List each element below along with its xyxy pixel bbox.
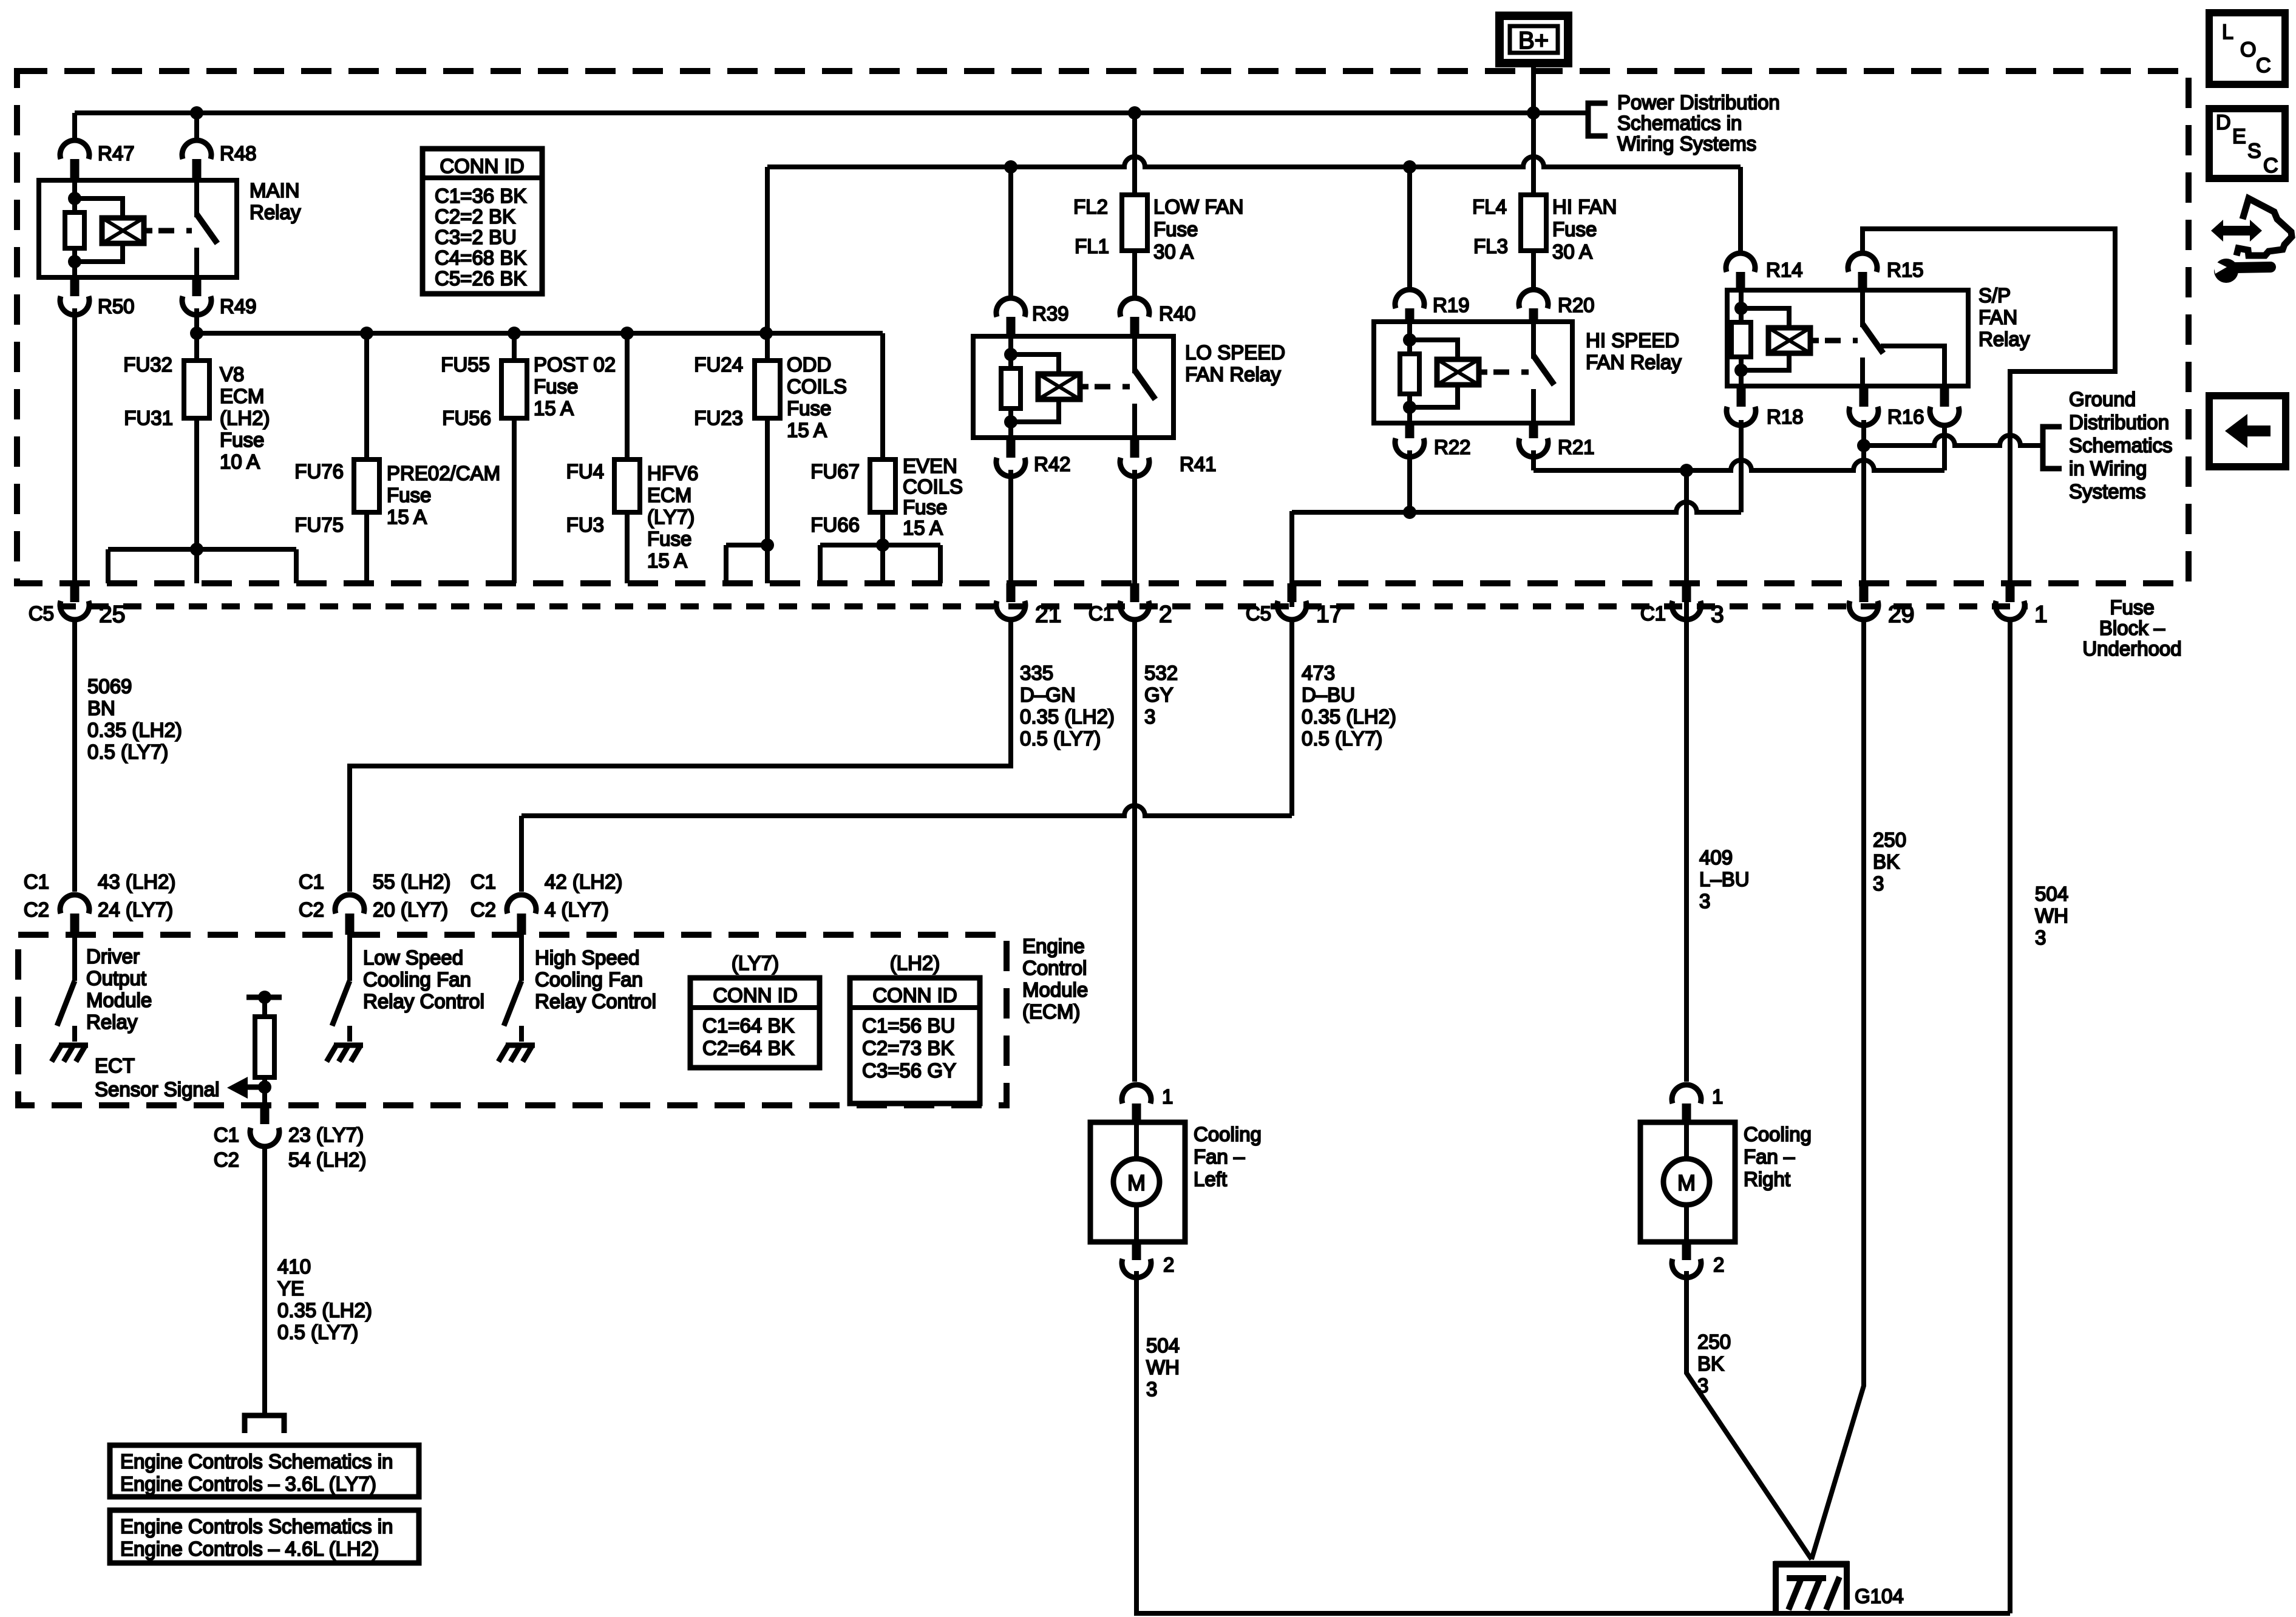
svg-text:250: 250 <box>1873 829 1906 851</box>
svg-text:15 A: 15 A <box>534 397 574 419</box>
svg-text:1: 1 <box>2034 602 2048 628</box>
line C to Ground Distribution pointer with hops <box>1864 435 2042 446</box>
relay MAIN switch common wire <box>194 180 199 217</box>
svg-text:L: L <box>2222 21 2233 44</box>
svg-text:M: M <box>1677 1170 1696 1195</box>
svg-text:LO SPEED: LO SPEED <box>1185 341 1285 364</box>
svg-text:Distribution: Distribution <box>2069 411 2169 433</box>
svg-text:Fuse: Fuse <box>2110 596 2154 619</box>
svg-text:D–GN: D–GN <box>1020 683 1076 706</box>
svg-text:Wiring Systems: Wiring Systems <box>1617 132 1756 155</box>
ECT sensor signal arrow <box>246 1085 265 1090</box>
svg-text:R48: R48 <box>220 142 257 164</box>
svg-text:Right: Right <box>1744 1168 1790 1190</box>
relay MAIN dashed actuation link <box>158 228 192 234</box>
svg-text:in Wiring: in Wiring <box>2069 457 2147 480</box>
svg-text:3: 3 <box>1699 890 1710 912</box>
svg-text:Fuse: Fuse <box>1153 218 1198 240</box>
svg-text:Schematics: Schematics <box>2069 434 2173 456</box>
relay LO SPEED FAN switch blade <box>1135 370 1155 399</box>
svg-text:LOW FAN: LOW FAN <box>1153 195 1244 218</box>
connector 29 <box>1849 601 1878 620</box>
node LO SPEED FAN coil bottom junction <box>1004 415 1017 429</box>
connector Cooling Fan Left pin 1 <box>1122 1085 1151 1103</box>
connector R40 <box>1120 298 1149 317</box>
wire bus2 corner down to R14 <box>1738 167 1743 253</box>
connector Driver Output Module Relay <box>60 895 89 914</box>
svg-text:FU32: FU32 <box>123 353 172 376</box>
relay S/P FAN coil wire <box>1739 290 1744 322</box>
pin stub 1 <box>2006 583 2015 602</box>
svg-text:FL3: FL3 <box>1473 235 1508 257</box>
wire Low Speed Cooling Fan Relay Control to switch <box>347 935 352 981</box>
svg-text:V8: V8 <box>220 363 244 385</box>
svg-text:FL4: FL4 <box>1472 195 1507 218</box>
wire bus3 to fuse FU55 <box>512 333 517 361</box>
svg-text:S/P: S/P <box>1978 284 2011 307</box>
svg-text:R15: R15 <box>1887 259 1924 281</box>
pin stub R49 <box>192 277 202 296</box>
svg-text:Module: Module <box>1022 978 1088 1001</box>
node MAIN coil bottom junction <box>68 255 81 268</box>
relay S/P FAN switch common wire <box>1860 290 1865 327</box>
relay HI SPEED FAN coil resistor <box>1400 354 1419 394</box>
pin stub R47 <box>70 159 80 180</box>
svg-text:Sensor Signal: Sensor Signal <box>95 1078 219 1100</box>
svg-text:(LH2): (LH2) <box>220 407 270 429</box>
DESC reference box <box>2209 109 2285 178</box>
connector High Speed Cooling Fan Relay Control <box>507 895 536 914</box>
FU23 output jog wire <box>726 543 767 547</box>
svg-text:C2=2 BK: C2=2 BK <box>435 205 515 228</box>
svg-text:Fan –: Fan – <box>1194 1145 1245 1168</box>
wire 409 L-BU to Cooling Fan Right <box>1684 470 1689 1082</box>
svg-text:ECM: ECM <box>647 484 691 506</box>
svg-text:(LY7): (LY7) <box>647 506 695 528</box>
fuse FU4/FU3 HFV6 ECM <box>614 459 640 512</box>
svg-text:R42: R42 <box>1034 453 1071 475</box>
relay MAIN switch contact stub <box>194 248 199 277</box>
svg-text:Engine: Engine <box>1022 935 1085 957</box>
wire High Speed Cooling Fan Relay Control to switch <box>519 935 524 981</box>
relay HI SPEED FAN winding (coil box with X) <box>1437 359 1479 385</box>
ground (Driver Output Module Relay) <box>59 1043 88 1048</box>
svg-text:2: 2 <box>1163 1253 1174 1276</box>
wire line B C5-17 to R18 with hop over 409 wire <box>1289 511 1294 607</box>
svg-text:2: 2 <box>1159 602 1172 628</box>
relay LO SPEED FAN dashed actuation link <box>1095 384 1130 390</box>
relay LO SPEED FAN winding (coil box with X) <box>1038 374 1080 399</box>
svg-text:Fan –: Fan – <box>1744 1145 1795 1168</box>
bus3 fuse feed wire <box>197 331 883 336</box>
back arrow reference box <box>2209 396 2286 467</box>
svg-text:23 (LY7): 23 (LY7) <box>288 1124 364 1146</box>
connector Cooling Fan Right pin 2 <box>1672 1259 1701 1278</box>
relay LO SPEED FAN coil resistor <box>1001 368 1021 408</box>
svg-text:R19: R19 <box>1433 294 1470 316</box>
CONN ID table (LY7) <box>690 978 820 1068</box>
connector R16 left <box>1849 407 1878 425</box>
svg-text:C1=56 BU: C1=56 BU <box>862 1014 955 1037</box>
svg-text:COILS: COILS <box>903 475 963 498</box>
svg-text:Fuse: Fuse <box>647 527 691 550</box>
svg-text:WH: WH <box>1146 1356 1180 1378</box>
svg-text:R16: R16 <box>1887 405 1924 428</box>
svg-text:1: 1 <box>1712 1085 1723 1108</box>
svg-text:Cooling: Cooling <box>1744 1123 1812 1145</box>
svg-text:EVEN: EVEN <box>903 455 957 477</box>
svg-text:Relay: Relay <box>1978 328 2030 350</box>
svg-text:R20: R20 <box>1558 294 1595 316</box>
svg-text:FAN Relay: FAN Relay <box>1185 363 1281 385</box>
node line A / 409 wire <box>1680 464 1693 477</box>
pin stub High Speed Cooling Fan Relay Control <box>517 914 526 935</box>
svg-text:Control: Control <box>1022 957 1087 979</box>
relay HI SPEED FAN winding loop wires <box>1410 340 1458 359</box>
fuse FU32/FU31 V8 ECM <box>184 361 209 418</box>
fuse FU67/FU66 EVEN COILS <box>870 459 895 512</box>
relay MAIN winding (coil box with X) <box>102 218 144 243</box>
connector C1-2 <box>1120 601 1149 620</box>
connector R50 <box>60 296 89 315</box>
svg-text:C1: C1 <box>214 1124 239 1146</box>
svg-text:C2: C2 <box>24 898 49 921</box>
wire bus1 down to R47 <box>72 113 77 140</box>
svg-text:R22: R22 <box>1434 436 1471 458</box>
svg-text:3: 3 <box>1697 1374 1708 1397</box>
wire FU75 to fuse block edge <box>364 512 369 583</box>
svg-text:C1=36 BK: C1=36 BK <box>435 185 526 207</box>
svg-text:BK: BK <box>1873 850 1900 873</box>
jog leg wires to fuse block edge <box>818 545 823 583</box>
switch stub High Speed Cooling Fan Relay Control <box>519 1026 524 1042</box>
svg-text:FU24: FU24 <box>694 353 743 376</box>
svg-text:D–BU: D–BU <box>1302 683 1355 706</box>
node line C <box>1857 439 1870 452</box>
svg-text:335: 335 <box>1020 662 1053 684</box>
connector R20 <box>1519 290 1548 308</box>
svg-text:5069: 5069 <box>87 675 132 697</box>
fuse FU76/FU75 PRE02/CAM <box>354 459 379 512</box>
svg-text:WH: WH <box>2035 904 2068 927</box>
svg-text:Relay Control: Relay Control <box>363 990 484 1012</box>
wire B+ to bus <box>1531 63 1536 113</box>
wire R22 down to 473 node <box>1407 450 1412 512</box>
fuse block underhood dashed boundary <box>17 71 2189 583</box>
pin stub R16 left <box>1860 386 1869 407</box>
wire Cooling Fan Right return 250 BK to G104 <box>1686 1271 1812 1559</box>
wire FU66 to output jog <box>880 512 885 545</box>
svg-text:Fuse: Fuse <box>534 375 578 398</box>
svg-text:C5: C5 <box>29 602 54 625</box>
node ECT signal <box>258 1080 271 1094</box>
svg-text:MAIN: MAIN <box>250 179 300 202</box>
svg-text:15 A: 15 A <box>903 517 943 539</box>
svg-text:(LH2): (LH2) <box>890 952 940 974</box>
svg-text:High Speed: High Speed <box>535 946 639 969</box>
connector R41 <box>1120 458 1149 476</box>
svg-text:0.35 (LH2): 0.35 (LH2) <box>87 719 182 741</box>
svg-text:4 (LY7): 4 (LY7) <box>545 898 609 921</box>
motor Cooling Fan Right box <box>1640 1122 1735 1242</box>
svg-text:C1: C1 <box>1089 602 1114 625</box>
Engine Control Module dashed boundary <box>18 935 1007 1105</box>
svg-text:0.5 (LY7): 0.5 (LY7) <box>277 1321 358 1343</box>
connector R47 <box>60 140 89 159</box>
svg-text:504: 504 <box>1146 1334 1180 1357</box>
svg-text:0.35 (LH2): 0.35 (LH2) <box>1302 705 1396 728</box>
wire 250 BK from connector 29 to G104 <box>1812 622 1864 1559</box>
svg-text:15 A: 15 A <box>787 419 827 441</box>
wire 532 GY to Cooling Fan Left <box>1132 622 1137 1082</box>
wire FL1 to R40 <box>1132 251 1137 297</box>
connector R21 <box>1519 438 1548 457</box>
wire R50 to fuse block connector C5-25 <box>72 308 77 583</box>
connector R19 <box>1395 290 1424 308</box>
svg-text:FL2: FL2 <box>1073 195 1108 218</box>
pin stub R22 <box>1405 423 1415 438</box>
pin stub C5-25 <box>70 583 80 602</box>
wire R16 left down to ground line C <box>1861 420 1866 583</box>
svg-text:CONN ID: CONN ID <box>872 984 957 1006</box>
wire B+ junction to Power Distribution pointer <box>1533 110 1588 115</box>
svg-text:Relay Control: Relay Control <box>535 990 656 1012</box>
connector R49 <box>182 296 211 315</box>
svg-text:Output: Output <box>86 967 146 989</box>
svg-text:21: 21 <box>1035 602 1061 628</box>
svg-text:FU23: FU23 <box>694 407 743 429</box>
connector Cooling Fan Right pin 1 <box>1672 1085 1701 1103</box>
svg-text:20 (LY7): 20 (LY7) <box>373 898 448 921</box>
pin stub Cooling Fan Left 1 <box>1132 1103 1141 1122</box>
svg-text:Engine Controls – 4.6L (LH2): Engine Controls – 4.6L (LH2) <box>120 1537 379 1560</box>
wire 473 D-BU to High Speed control (hop over 532) <box>521 805 1292 816</box>
node bus1/FL2 <box>1128 106 1141 120</box>
ECT sensor pull-up top bar <box>246 995 282 1000</box>
relay S/P FAN switch contact stub <box>1860 358 1865 386</box>
relay HI SPEED FAN box <box>1374 322 1572 423</box>
node HI SPEED FAN coil top junction <box>1403 333 1416 347</box>
svg-text:25: 25 <box>99 602 125 628</box>
wire FU3 to fuse block edge <box>625 512 630 583</box>
off-page connector bracket (410 YE) <box>245 1415 284 1433</box>
svg-text:409: 409 <box>1699 846 1733 869</box>
svg-text:1: 1 <box>1162 1085 1173 1108</box>
svg-text:FU3: FU3 <box>566 514 604 536</box>
svg-text:30 A: 30 A <box>1153 240 1194 263</box>
svg-text:(LY7): (LY7) <box>732 952 779 974</box>
svg-text:M: M <box>1127 1170 1146 1195</box>
svg-text:C3=56 GY: C3=56 GY <box>862 1059 956 1082</box>
node 473/R22 <box>1403 506 1416 519</box>
svg-text:0.5 (LY7): 0.5 (LY7) <box>1302 727 1382 750</box>
pin stub C1-2 <box>1130 583 1140 602</box>
Ground Distribution reference bracket <box>2043 427 2062 469</box>
pin stub R42 <box>1007 438 1016 458</box>
motor Cooling Fan Left box <box>1090 1122 1185 1242</box>
svg-text:R39: R39 <box>1032 302 1069 325</box>
connector C1/C2 23/54 <box>250 1128 279 1147</box>
ground G104 symbol <box>1774 1561 1849 1568</box>
svg-text:15 A: 15 A <box>647 549 687 572</box>
connector C5-25 <box>60 601 89 620</box>
svg-text:FL1: FL1 <box>1075 235 1109 257</box>
svg-text:10 A: 10 A <box>220 450 260 473</box>
svg-text:C5=26 BK: C5=26 BK <box>435 267 526 290</box>
jog leg wires to fuse block edge <box>724 545 729 583</box>
fuse FU24/FU23 ODD COILS <box>755 361 780 418</box>
relay HI SPEED FAN switch contact stub <box>1531 389 1536 423</box>
svg-text:R14: R14 <box>1766 259 1803 281</box>
svg-text:3: 3 <box>2035 926 2046 949</box>
connector C1-3 <box>1672 601 1701 620</box>
svg-text:S: S <box>2247 140 2261 163</box>
pin stub Cooling Fan Left 2 <box>1132 1242 1141 1260</box>
svg-text:54 (LH2): 54 (LH2) <box>288 1148 366 1171</box>
svg-text:YE: YE <box>277 1277 304 1300</box>
node FU66 jog <box>876 538 889 552</box>
connector R18 <box>1727 407 1756 425</box>
connector R14 <box>1726 253 1755 272</box>
svg-text:Power Distribution: Power Distribution <box>1617 91 1780 114</box>
svg-text:C2: C2 <box>470 898 496 921</box>
node bus1/B+ <box>1527 106 1540 120</box>
node S/P FAN coil top junction <box>1734 302 1748 315</box>
svg-text:C1: C1 <box>470 870 496 893</box>
svg-text:C2=73 BK: C2=73 BK <box>862 1037 954 1059</box>
bus2 horizontal feed wire with hops <box>767 157 1741 167</box>
svg-text:Cooling: Cooling <box>1194 1123 1262 1145</box>
pin stub R50 <box>70 277 80 296</box>
connector R42 <box>996 458 1025 476</box>
wire resistor to ECT signal node <box>262 1077 267 1103</box>
svg-text:O: O <box>2240 38 2256 61</box>
S/P relay switch output wire to R16 right <box>1881 346 1944 386</box>
svg-text:Engine Controls Schematics in: Engine Controls Schematics in <box>120 1515 393 1537</box>
relay HI SPEED FAN dashed actuation link <box>1493 370 1529 375</box>
svg-text:ODD: ODD <box>787 353 831 376</box>
svg-text:COILS: COILS <box>787 375 847 398</box>
svg-text:30 A: 30 A <box>1552 240 1592 263</box>
svg-text:Ground: Ground <box>2069 388 2136 410</box>
svg-text:FU75: FU75 <box>294 514 344 536</box>
svg-text:Left: Left <box>1194 1168 1227 1190</box>
svg-text:3: 3 <box>1144 705 1155 728</box>
switch stub Driver Output Module Relay <box>72 1026 77 1042</box>
FU31 output jog wire <box>108 547 296 552</box>
svg-text:C5: C5 <box>1246 602 1271 625</box>
wire 410 YE to engine controls <box>262 1148 267 1414</box>
wire R18 down to line B <box>1739 420 1744 512</box>
wire 5069 BN to ECM driver relay <box>72 622 77 892</box>
svg-text:CONN ID: CONN ID <box>713 984 797 1006</box>
svg-text:C2=64 BK: C2=64 BK <box>702 1037 794 1059</box>
wire 335 D-GN circuit 21 to Low Speed control <box>350 622 1011 892</box>
svg-text:FU67: FU67 <box>810 460 860 483</box>
reference box Engine Controls 3.6L <box>110 1445 419 1497</box>
pin stub R39 <box>1007 317 1016 336</box>
svg-text:0.5 (LY7): 0.5 (LY7) <box>87 741 168 763</box>
ground (High Speed Cooling Fan Relay Control) <box>506 1043 535 1048</box>
pin stub R40 <box>1130 317 1140 336</box>
wire FU56 to fuse block edge <box>512 418 517 583</box>
connector R39 <box>996 298 1025 317</box>
connector C5-17 <box>1277 601 1306 620</box>
svg-text:BN: BN <box>87 697 115 719</box>
node ECT top <box>258 991 271 1004</box>
relay HI SPEED FAN switch common wire <box>1531 322 1536 359</box>
node bus2/R19 <box>1403 160 1416 174</box>
svg-text:R21: R21 <box>1558 436 1595 458</box>
wire R42 to fuse block connector 21 <box>1008 470 1013 583</box>
wire B+ to HI FAN fuse (crosses bus2) <box>1531 113 1536 195</box>
svg-text:C1: C1 <box>24 870 49 893</box>
Power Distribution reference bracket <box>1588 103 1608 136</box>
node MAIN coil top junction <box>68 192 81 205</box>
pin stub ECT output <box>260 1106 270 1124</box>
wire Cooling Fan Left return 504 WH <box>1136 1271 2010 1613</box>
svg-text:HI FAN: HI FAN <box>1552 195 1617 218</box>
svg-text:Fuse: Fuse <box>903 496 947 518</box>
svg-text:ECT: ECT <box>95 1054 135 1077</box>
battery feed B+ box <box>1500 16 1568 63</box>
connector 1 <box>1995 601 2025 620</box>
wire bus3 to fuse FU76 <box>364 333 369 459</box>
svg-text:FU4: FU4 <box>566 460 604 483</box>
relay MAIN coil resistor <box>65 212 84 248</box>
relay S/P FAN switch blade <box>1863 324 1883 353</box>
wire R41 to fuse block connector C1-2 <box>1132 470 1137 583</box>
svg-text:0.5 (LY7): 0.5 (LY7) <box>1020 727 1101 750</box>
relay HI SPEED FAN switch blade <box>1533 356 1554 385</box>
svg-text:Schematics in: Schematics in <box>1617 112 1742 134</box>
FU66 output jog wire <box>820 543 940 547</box>
svg-text:BK: BK <box>1697 1352 1724 1375</box>
relay S/P FAN box <box>1727 290 1968 386</box>
svg-text:FAN: FAN <box>1978 306 2017 328</box>
pin stub Cooling Fan Right 1 <box>1682 1103 1691 1122</box>
wire bus1 down to R48 <box>194 113 199 140</box>
connector 21 <box>996 601 1025 620</box>
wire bus2 to R19 <box>1407 167 1412 289</box>
svg-text:HI SPEED: HI SPEED <box>1586 329 1679 351</box>
svg-text:PRE02/CAM: PRE02/CAM <box>387 462 500 484</box>
switch stub Low Speed Cooling Fan Relay Control <box>347 1026 352 1042</box>
relay MAIN switch blade <box>197 214 217 243</box>
pin stub R21 <box>1529 423 1538 438</box>
node bus3/FU4 <box>620 327 634 340</box>
jog leg wires to fuse block edge <box>106 549 110 583</box>
CONN ID table (fuse block) <box>423 149 542 294</box>
svg-text:42 (LH2): 42 (LH2) <box>545 870 622 893</box>
svg-text:FAN Relay: FAN Relay <box>1586 351 1682 373</box>
svg-text:Cooling Fan: Cooling Fan <box>535 968 643 991</box>
CONN ID table (LH2) <box>850 978 980 1103</box>
fuse FL4/FL3 HI FAN 30A <box>1521 195 1546 251</box>
resistor ECT pull-up <box>255 1017 274 1077</box>
wire 504 WH from connector 1 to bottom bus <box>2008 622 2012 1613</box>
relay S/P FAN winding (coil box with X) <box>1768 328 1810 353</box>
svg-text:GY: GY <box>1144 683 1173 706</box>
switch blade High Speed Cooling Fan Relay Control <box>504 981 521 1026</box>
svg-text:FU76: FU76 <box>294 460 344 483</box>
svg-text:55 (LH2): 55 (LH2) <box>373 870 450 893</box>
bus1 horizontal feed wire <box>75 110 1533 115</box>
svg-text:532: 532 <box>1144 662 1178 684</box>
svg-text:FU56: FU56 <box>442 407 491 429</box>
connector R15 <box>1848 253 1877 272</box>
svg-text:0.35 (LH2): 0.35 (LH2) <box>277 1299 372 1321</box>
